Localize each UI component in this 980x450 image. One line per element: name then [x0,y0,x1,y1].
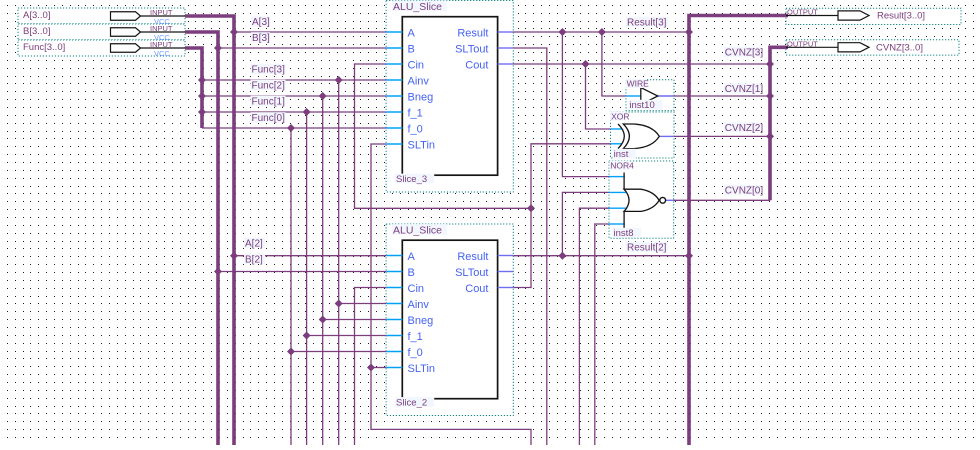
svg-text:VCC: VCC [154,49,170,58]
svg-text:Func[2]: Func[2] [252,81,286,92]
svg-text:Bneg: Bneg [408,315,434,327]
svg-text:ALU_Slice: ALU_Slice [393,1,442,13]
svg-text:f_1: f_1 [408,107,423,119]
svg-text:Result[3..0]: Result[3..0] [877,11,925,22]
svg-text:Result: Result [457,27,488,39]
svg-text:A: A [408,27,416,39]
svg-text:Func[3]: Func[3] [252,65,286,76]
svg-text:CVNZ[2]: CVNZ[2] [725,123,764,134]
svg-text:Cin: Cin [408,59,425,71]
svg-text:Cout: Cout [465,59,488,71]
svg-text:Ainv: Ainv [408,299,430,311]
svg-text:Result[2]: Result[2] [627,243,667,254]
svg-text:OUTPUT: OUTPUT [787,39,818,48]
svg-text:A[3]: A[3] [252,17,270,28]
svg-text:Result[3]: Result[3] [627,18,667,29]
svg-text:inst8: inst8 [614,228,634,239]
svg-text:Cout: Cout [465,283,488,295]
svg-text:XOR: XOR [611,111,629,121]
svg-text:B[2]: B[2] [245,255,263,266]
svg-text:Ainv: Ainv [408,75,430,87]
svg-text:inst10: inst10 [629,100,654,111]
svg-text:Result: Result [457,251,488,263]
svg-text:A[2]: A[2] [245,239,263,250]
svg-text:CVNZ[0]: CVNZ[0] [725,186,764,197]
svg-text:INPUT: INPUT [150,8,173,17]
svg-text:Slice_2: Slice_2 [396,398,427,409]
svg-text:A[3..0]: A[3..0] [23,10,50,21]
svg-text:A: A [408,251,416,263]
svg-text:OUTPUT: OUTPUT [787,8,818,17]
svg-text:Func[3..0]: Func[3..0] [23,42,65,53]
svg-text:f_0: f_0 [408,123,423,135]
svg-text:B: B [408,43,415,55]
svg-text:B[3]: B[3] [252,33,270,44]
svg-text:f_1: f_1 [408,331,423,343]
svg-text:CVNZ[3..0]: CVNZ[3..0] [876,42,923,53]
svg-text:Func[0]: Func[0] [252,113,286,124]
svg-text:INPUT: INPUT [150,40,173,49]
svg-text:Cin: Cin [408,283,425,295]
svg-text:CVNZ[3]: CVNZ[3] [725,48,764,59]
svg-text:inst: inst [614,149,629,160]
svg-text:SLTin: SLTin [408,139,436,151]
svg-text:SLTout: SLTout [455,267,488,279]
svg-text:NOR4: NOR4 [610,161,634,171]
svg-text:INPUT: INPUT [150,24,173,33]
svg-text:WIRE: WIRE [627,79,650,89]
svg-text:SLTin: SLTin [408,363,436,375]
svg-text:B: B [408,267,415,279]
svg-text:ALU_Slice: ALU_Slice [393,224,442,236]
svg-text:CVNZ[1]: CVNZ[1] [725,84,764,95]
svg-text:Bneg: Bneg [408,91,434,103]
svg-text:f_0: f_0 [408,347,423,359]
svg-text:Slice_3: Slice_3 [396,174,427,185]
svg-text:SLTout: SLTout [455,43,488,55]
svg-text:B[3..0]: B[3..0] [23,26,50,37]
svg-text:Func[1]: Func[1] [252,97,286,108]
